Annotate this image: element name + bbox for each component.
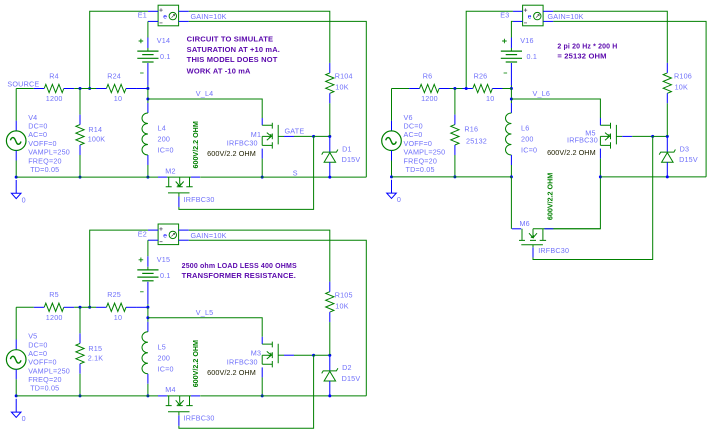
svg-text:R4: R4	[49, 71, 59, 80]
wire R26 to V16 node	[502, 88, 511, 90]
pin E2 in+	[148, 229, 158, 231]
svg-text:AC=0: AC=0	[404, 130, 423, 139]
junction R14 top	[79, 87, 82, 90]
svg-text:TRANSFORMER RESISTANCE.: TRANSFORMER RESISTANCE.	[182, 273, 296, 280]
battery V16	[501, 50, 522, 52]
svg-text:25132: 25132	[466, 137, 487, 146]
svg-text:600V/2.2 OHM: 600V/2.2 OHM	[207, 368, 256, 377]
svg-text:GAIN=10K: GAIN=10K	[191, 231, 227, 240]
pin L4 bottom	[147, 155, 149, 165]
svg-text:V5: V5	[28, 332, 37, 341]
junction R25/V15	[146, 306, 149, 309]
svg-text:SOURCE: SOURCE	[7, 80, 39, 89]
wire M1 source to rail	[261, 159, 263, 178]
wire L4 to rail	[147, 165, 149, 177]
resistor R106	[663, 73, 671, 93]
svg-text:IRFBC30: IRFBC30	[184, 414, 215, 423]
junction gate net	[312, 135, 315, 138]
svg-text:TD=0.05: TD=0.05	[30, 384, 59, 393]
svg-text:R25: R25	[107, 290, 121, 299]
wire E1 out- to S rail	[189, 21, 366, 177]
wire V6 node	[392, 88, 410, 90]
pin V4 +	[15, 121, 17, 131]
svg-text:VAMPL=250: VAMPL=250	[28, 366, 70, 375]
wire gate net down to M2	[179, 136, 314, 209]
wire node to R15	[79, 307, 81, 333]
wire V14 node to L4	[147, 89, 149, 104]
pin M3 source	[261, 367, 263, 377]
mosfet M2	[166, 177, 193, 193]
svg-text:VAMPL=250: VAMPL=250	[28, 148, 70, 157]
svg-text:IC=0: IC=0	[158, 364, 174, 373]
wire L6 bottom to M6 drain	[510, 177, 512, 229]
wire gate net down to M4	[179, 355, 314, 428]
junction L6 bottom	[510, 175, 513, 178]
pin V5 +	[15, 340, 17, 350]
wire source rail (S net) mid	[167, 176, 191, 178]
sine source V4	[6, 131, 26, 151]
svg-text:R105: R105	[335, 290, 353, 299]
junction at R divider / E2 in+	[88, 306, 91, 309]
svg-text:2500 ohm LOAD LESS 400 OHMS: 2500 ohm LOAD LESS 400 OHMS	[182, 263, 297, 270]
wire E3 out+ to R106	[553, 11, 667, 63]
pin V6 -	[391, 151, 393, 161]
svg-text:0.1: 0.1	[527, 52, 538, 61]
svg-text:GAIN=10K: GAIN=10K	[191, 12, 227, 21]
wire V5 to ground rail	[15, 379, 17, 396]
junction ground tap	[15, 394, 18, 397]
wire source node	[16, 88, 34, 90]
svg-text:10K: 10K	[335, 301, 348, 310]
svg-text:600V/2.2 OHM: 600V/2.2 OHM	[548, 173, 555, 221]
junction R divider / E3 in+	[465, 87, 468, 90]
wire gate net to R106/D3	[653, 135, 668, 137]
resistor R6	[420, 84, 440, 92]
pin M4 gate	[178, 415, 180, 426]
svg-text:VOFF=0: VOFF=0	[28, 358, 57, 367]
mosfet M6	[519, 229, 546, 245]
junction V_L5 tap	[146, 316, 149, 319]
svg-text:D1: D1	[342, 144, 352, 153]
pin L6 bottom	[510, 155, 512, 165]
wire R6 to R26	[450, 88, 468, 90]
wire net V_L6	[511, 99, 600, 118]
svg-text:10: 10	[486, 94, 494, 103]
svg-text:600V/2.2 OHM: 600V/2.2 OHM	[193, 121, 200, 169]
svg-text:e: e	[163, 232, 167, 239]
svg-text:10: 10	[114, 313, 122, 322]
svg-text:2 pi 20 Hz * 200 H: 2 pi 20 Hz * 200 H	[557, 44, 617, 51]
svg-text:M3: M3	[251, 349, 261, 358]
junction R16 bottom	[453, 175, 456, 178]
svg-text:0: 0	[397, 195, 401, 204]
svg-text:VOFF=0: VOFF=0	[404, 139, 433, 148]
mosfet M5	[600, 123, 616, 149]
pin M6 gate	[532, 247, 534, 257]
resistor R104	[326, 73, 334, 93]
svg-text:VAMPL=250: VAMPL=250	[404, 148, 446, 157]
junction R104/D1	[328, 135, 331, 138]
wire R4 to R24	[74, 88, 96, 90]
svg-text:IRFBC30: IRFBC30	[227, 139, 258, 148]
wire E3 in+ to R junction	[466, 11, 513, 88]
battery V15	[137, 269, 158, 271]
wire node to V4	[15, 89, 17, 121]
ground 0	[15, 180, 17, 193]
svg-text:R26: R26	[474, 71, 488, 80]
svg-text:600V/2.2 OHM: 600V/2.2 OHM	[547, 148, 596, 157]
wire E1 in- down to V14	[147, 21, 149, 37]
wire M4 gate stub	[178, 412, 180, 416]
pin E3 out-	[543, 20, 553, 22]
pin E2 out+	[179, 229, 189, 231]
vcvs E2 (gain block)	[158, 224, 179, 245]
svg-text:VOFF=0: VOFF=0	[28, 139, 57, 148]
wire source rail right part	[600, 176, 706, 178]
zener diode D2	[329, 355, 331, 371]
svg-text:DC=0: DC=0	[28, 122, 47, 131]
junction ground tap	[15, 176, 18, 179]
svg-text:M1: M1	[251, 130, 261, 139]
svg-text:R6: R6	[423, 71, 433, 80]
junction at R divider / E1 in+	[88, 87, 91, 90]
junction V_L6 tap	[510, 98, 513, 101]
junction M3 source	[261, 394, 264, 397]
wire gate net to R104/D1	[314, 135, 330, 137]
battery V14	[137, 50, 158, 52]
svg-text:D15V: D15V	[342, 155, 361, 164]
junction D3 anode	[666, 175, 669, 178]
pin M3 drain	[261, 337, 263, 344]
svg-text:GAIN=10K: GAIN=10K	[548, 12, 584, 21]
wire R106 to gate net	[666, 103, 668, 136]
pin E2 in-	[148, 239, 158, 241]
svg-text:S: S	[293, 169, 298, 178]
svg-text:600V/2.2 OHM: 600V/2.2 OHM	[207, 149, 256, 158]
pin M5 drain	[599, 118, 601, 125]
junction V_L4 tap	[146, 98, 149, 101]
svg-text:IC=0: IC=0	[158, 146, 174, 155]
pin E1 in-	[148, 20, 158, 22]
svg-text:WORK AT -10 mA: WORK AT -10 mA	[187, 68, 251, 75]
junction M5 source at rail	[599, 175, 602, 178]
svg-text:V14: V14	[157, 36, 170, 45]
wire R24 to V14 node	[136, 88, 148, 90]
svg-text:V15: V15	[157, 255, 170, 264]
svg-text:IRFBC30: IRFBC30	[567, 136, 598, 145]
wire V4 to ground rail	[15, 161, 17, 178]
svg-text:TD=0.05: TD=0.05	[30, 165, 59, 174]
zener diode D1	[329, 136, 331, 152]
wire V14 to node	[147, 86, 149, 89]
svg-text:R16: R16	[464, 125, 478, 134]
junction gate net	[312, 354, 315, 357]
svg-text:2.1K: 2.1K	[88, 353, 104, 362]
svg-text:1200: 1200	[46, 94, 63, 103]
wire E2 out+ to R105	[189, 230, 330, 282]
junction R105/D2	[328, 354, 331, 357]
vcvs E1 (gain block)	[158, 5, 179, 26]
wire M3 source to rail	[261, 377, 263, 396]
junction M1 source	[261, 176, 264, 179]
wire R25 to V15 node	[136, 306, 148, 308]
wire E1 out+ to R104	[189, 11, 330, 63]
resistor R15	[76, 343, 84, 363]
pin E3 out+	[543, 10, 553, 12]
svg-text:10K: 10K	[335, 83, 348, 92]
wire R5 to R25	[74, 306, 96, 308]
wire V16 + stub	[510, 48, 512, 51]
wire L6 to rail	[510, 165, 512, 177]
svg-text:R15: R15	[88, 344, 102, 353]
pin M1 drain	[261, 118, 263, 125]
svg-text:M6: M6	[520, 219, 530, 228]
svg-text:DC=0: DC=0	[28, 340, 47, 349]
resistor R5	[44, 303, 64, 311]
svg-text:IRFBC30: IRFBC30	[538, 246, 569, 255]
junction D1 anode	[328, 176, 331, 179]
wire R15 to rail	[79, 374, 81, 396]
svg-text:D15V: D15V	[342, 374, 361, 383]
wire E2 out- to S rail	[189, 240, 366, 396]
inductor L5	[142, 332, 148, 374]
pin M6 source lead	[544, 228, 553, 230]
wire E2 in+ to R junction	[90, 230, 148, 307]
pin M6 drain lead	[512, 228, 521, 230]
wire M6 source to M5 source	[553, 228, 600, 230]
pin V16 +	[510, 38, 512, 49]
svg-text:V4: V4	[28, 113, 37, 122]
wire node to V5	[15, 307, 17, 339]
junction L4 bottom	[146, 176, 149, 179]
junction R14 bottom	[79, 176, 82, 179]
svg-text:V_L5: V_L5	[196, 308, 214, 317]
svg-text:L4: L4	[158, 124, 166, 133]
svg-text:10K: 10K	[675, 83, 688, 92]
svg-text:E3: E3	[500, 11, 509, 20]
wire L5 to rail	[147, 384, 149, 396]
svg-text:0.1: 0.1	[160, 271, 171, 280]
wire source rail (S net) mid	[167, 395, 191, 397]
wire V15 to node	[147, 304, 149, 307]
svg-text:IRFBC30: IRFBC30	[184, 195, 215, 204]
pin V15 -	[147, 282, 149, 305]
svg-text:e: e	[163, 14, 167, 21]
svg-text:0: 0	[22, 195, 26, 204]
wire net V_L5	[148, 318, 262, 337]
pin V5 -	[15, 369, 17, 379]
svg-text:10: 10	[114, 94, 122, 103]
sine source V5	[6, 350, 26, 370]
pin M2 gate	[178, 197, 180, 208]
sine source V6	[382, 131, 402, 151]
junction R16 top	[453, 87, 456, 90]
wire V14 + stub	[147, 48, 149, 51]
svg-text:E1: E1	[138, 11, 147, 20]
svg-text:SATURATION AT +10 mA.: SATURATION AT +10 mA.	[187, 47, 280, 54]
pin E1 out-	[179, 20, 189, 22]
pin E1 in+	[148, 10, 158, 12]
mosfet M4	[166, 396, 193, 412]
inductor L6	[506, 113, 512, 155]
svg-text:R106: R106	[674, 72, 692, 81]
wire V16 node to L6	[510, 89, 512, 104]
junction R24/V14	[146, 87, 149, 90]
svg-text:IC=0: IC=0	[521, 146, 537, 155]
wire V15 node to L5	[147, 307, 149, 322]
wire E3 in- down to V16	[511, 21, 513, 37]
svg-text:R24: R24	[107, 71, 121, 80]
svg-text:E2: E2	[138, 229, 147, 238]
mosfet M3	[262, 342, 278, 368]
svg-text:IRFBC30: IRFBC30	[227, 358, 258, 367]
pin M5 source	[599, 149, 601, 159]
svg-text:1200: 1200	[46, 313, 63, 322]
pin E3 in+	[513, 10, 523, 12]
resistor R105	[326, 292, 334, 312]
resistor R24	[106, 84, 126, 92]
svg-text:M2: M2	[165, 166, 175, 175]
junction R26/V16	[510, 87, 513, 90]
zener diode D3	[666, 136, 668, 152]
pin V4 -	[15, 151, 17, 161]
resistor R26	[473, 84, 493, 92]
wire V15 + stub	[147, 267, 149, 270]
wire M5 source down	[543, 159, 601, 229]
svg-text:THIS MODEL DOES NOT: THIS MODEL DOES NOT	[187, 57, 278, 64]
pin E2 out-	[179, 239, 189, 241]
inductor L4	[142, 113, 148, 155]
resistor R16	[451, 125, 459, 145]
svg-text:200: 200	[158, 135, 171, 144]
resistor R14	[76, 125, 84, 145]
wire gate net to R105/D2	[314, 354, 330, 356]
pin V16 -	[510, 63, 512, 86]
pin E3 in-	[513, 20, 523, 22]
pin V15 +	[147, 256, 149, 267]
wire source rail (S net) left	[16, 176, 158, 178]
wire source node	[16, 306, 34, 308]
svg-text:V_L4: V_L4	[196, 89, 214, 98]
pin L4 top	[147, 103, 149, 113]
wire node to R16	[454, 89, 456, 115]
wire R14 to rail	[79, 155, 81, 177]
wire V16 to node	[510, 86, 512, 89]
svg-text:R104: R104	[335, 72, 353, 81]
svg-text:1200: 1200	[421, 94, 438, 103]
pin V14 -	[147, 63, 149, 86]
svg-text:V6: V6	[404, 113, 413, 122]
svg-text:D15V: D15V	[679, 155, 698, 164]
ground 0 right	[391, 180, 393, 193]
junction R15 bottom	[79, 394, 82, 397]
wire V6 to ground rail	[391, 161, 393, 177]
svg-text:V16: V16	[520, 36, 533, 45]
svg-text:= 25132 OHM: = 25132 OHM	[557, 54, 606, 61]
svg-text:R14: R14	[88, 125, 102, 134]
wire R16 to rail	[454, 155, 456, 177]
svg-text:100K: 100K	[88, 135, 106, 144]
pin V14 +	[147, 38, 149, 49]
wire E2 in- down to V15	[147, 240, 149, 256]
vcvs E3 (gain block)	[523, 5, 544, 26]
junction R106/D3	[666, 135, 669, 138]
wire source rail (S net) right	[200, 395, 366, 397]
wire gate net down to M6	[533, 136, 653, 259]
svg-text:e: e	[528, 14, 532, 21]
ground 0	[15, 399, 17, 412]
resistor R25	[106, 303, 126, 311]
svg-text:DC=0: DC=0	[404, 122, 423, 131]
wire source rail left part	[392, 176, 512, 178]
svg-text:L5: L5	[158, 342, 166, 351]
wire M6 gate stub	[532, 245, 534, 248]
junction D2 anode	[328, 394, 331, 397]
svg-text:AC=0: AC=0	[28, 349, 47, 358]
pin L6 top	[510, 103, 512, 113]
svg-text:D2: D2	[342, 363, 352, 372]
wire R104 to gate net	[329, 103, 331, 136]
svg-text:CIRCUIT TO SIMULATE: CIRCUIT TO SIMULATE	[187, 37, 274, 44]
wire E3 out- to S rail	[553, 21, 706, 177]
svg-text:200: 200	[521, 135, 534, 144]
svg-text:0: 0	[22, 414, 26, 423]
svg-text:GATE: GATE	[285, 126, 305, 135]
wire net V_L4	[148, 99, 262, 118]
svg-text:AC=0: AC=0	[28, 130, 47, 139]
svg-text:L6: L6	[521, 124, 529, 133]
pin M1 source	[261, 149, 263, 159]
svg-text:M4: M4	[165, 385, 175, 394]
junction L5 bottom	[146, 394, 149, 397]
pin E1 out+	[179, 10, 189, 12]
wire source rail (S net) left	[16, 395, 158, 397]
svg-text:D3: D3	[680, 144, 690, 153]
wire M2 gate stub	[178, 193, 180, 197]
svg-text:TD=0.05: TD=0.05	[406, 165, 435, 174]
pin L5 top	[147, 322, 149, 332]
mosfet M1	[262, 123, 278, 149]
junction ground tap right	[390, 175, 393, 178]
wire node to R14	[79, 89, 81, 115]
wire node to V6	[391, 89, 393, 121]
junction gate net right	[651, 135, 654, 138]
pin V6 +	[391, 121, 393, 131]
wire E1 in+ to R junction	[90, 11, 148, 88]
svg-text:0.1: 0.1	[160, 52, 171, 61]
svg-text:R5: R5	[49, 290, 59, 299]
wire source rail (S net) right	[200, 176, 366, 178]
resistor R4	[44, 84, 64, 92]
svg-text:600V/2.2 OHM: 600V/2.2 OHM	[193, 340, 200, 388]
junction R15 top	[79, 306, 82, 309]
wire R105 to gate net	[329, 322, 331, 355]
svg-text:V_L6: V_L6	[533, 89, 551, 98]
svg-text:200: 200	[158, 353, 171, 362]
pin L5 bottom	[147, 374, 149, 384]
